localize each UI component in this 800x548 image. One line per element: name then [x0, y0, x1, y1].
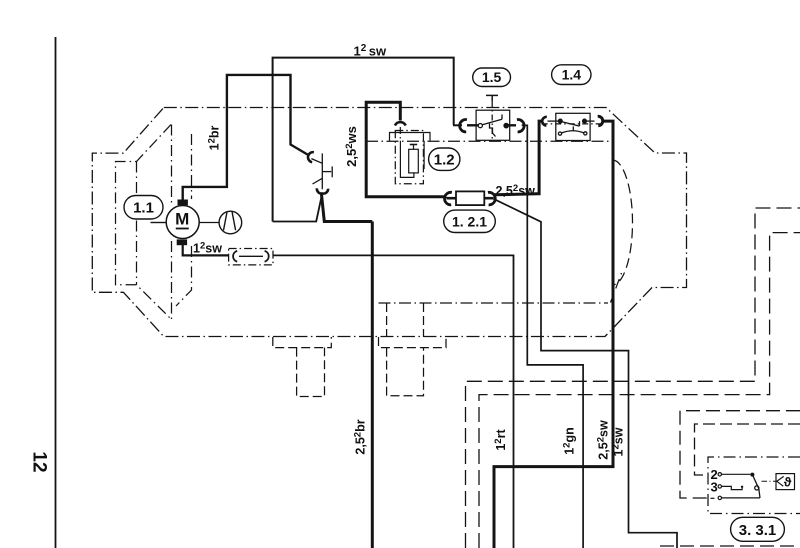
fuse 1.2.1 right hook	[488, 192, 495, 205]
wire fuse to switch 1.4 (2,5sw)	[494, 121, 543, 195]
thermostat 3.3.1 boundary (dash-dot)	[708, 457, 800, 514]
switch 1.5 input hook	[460, 120, 467, 132]
svg-text:2,52ws: 2,52ws	[344, 126, 359, 167]
svg-text:12gn: 12gn	[562, 427, 577, 455]
page number 12	[28, 451, 49, 472]
label 1.5	[473, 68, 511, 87]
wire 1gn from switch 1.5	[522, 125, 583, 548]
fan symbol	[199, 211, 242, 234]
svg-text:12: 12	[28, 451, 49, 472]
heater inner left outline (dash-dot)	[116, 125, 172, 320]
mounting foot 1 leg	[297, 348, 325, 397]
svg-text:1.5: 1.5	[482, 69, 502, 85]
label 2,5br (rotated)	[353, 419, 368, 454]
glow plug feed frame wire 2,5ws	[366, 102, 446, 197]
glow plug sheath	[400, 141, 424, 178]
svg-text:12rt: 12rt	[493, 429, 508, 451]
svg-text:ϑ: ϑ	[784, 475, 792, 490]
thermostat blade	[752, 475, 760, 498]
label 1.1	[124, 196, 163, 220]
wire 2,5sw from switch 1.4 to bottom	[494, 121, 613, 548]
switch 1.5 contacts and blade	[453, 115, 516, 137]
switch 1.4 input hook	[542, 117, 547, 126]
bulkhead bottom dashed line	[660, 545, 800, 547]
heater body outline (dash-dot)	[92, 108, 686, 337]
svg-text:1.1: 1.1	[133, 200, 154, 217]
svg-text:1.2: 1.2	[434, 152, 455, 169]
heater right blower arc (dashed)	[611, 160, 633, 303]
label 1.4	[552, 65, 591, 85]
control unit enclosure inner (dashed)	[695, 424, 800, 475]
glow plug connector hook	[395, 122, 406, 125]
motor left stub wire	[151, 222, 167, 224]
flame switch upper connector hook	[308, 152, 314, 162]
switch 1.4 output hook	[598, 116, 603, 126]
label 3.3.1	[731, 517, 785, 541]
wire 2,5br from flame switch down	[321, 193, 372, 548]
label 2,5ws (rotated)	[344, 126, 359, 167]
svg-text:1. 2.1: 1. 2.1	[452, 214, 487, 230]
thermostat terminal minus	[711, 496, 761, 499]
label 2,5sw at fuse	[496, 183, 536, 198]
label 1rt (rotated)	[493, 429, 508, 451]
wire 1sw top run	[273, 58, 454, 222]
control unit enclosure outer (dashed)	[680, 411, 800, 498]
page border line	[55, 37, 57, 548]
label 1br (rotated)	[207, 125, 222, 150]
mounting foot 2 leg	[387, 348, 424, 396]
label 1gn (rotated)	[562, 427, 577, 455]
mounting foot 1 tab	[273, 337, 332, 348]
glow plug element	[409, 145, 419, 173]
switch 1.5 output hook	[517, 120, 524, 132]
svg-text:3. 3.1: 3. 3.1	[739, 522, 777, 539]
mounting foot 2 tab	[379, 337, 447, 348]
thermostat terminal 2	[711, 467, 755, 482]
glow plug 1.2 boundary (dash-dot)	[395, 131, 423, 184]
mounting foot 2 risers	[387, 303, 424, 337]
glow plug 1.2 flange	[390, 133, 431, 141]
thermostat terminal 3	[711, 480, 744, 495]
heater inner horizontal line lower (dash-dot)	[379, 302, 609, 304]
switch 1.4 axis dash-dot	[542, 123, 601, 125]
connector hooks and through wire	[233, 251, 269, 262]
flame switch lower connector hook	[317, 188, 328, 193]
wire 1rt run to bottom	[273, 255, 514, 548]
vehicle bulkhead outer line (dashed)	[466, 208, 800, 548]
label 1sw motor	[193, 241, 222, 256]
switch 1.5 box	[476, 110, 510, 140]
label 1.2.1	[444, 210, 496, 232]
glow plug lead dash-dot	[399, 127, 401, 141]
label 1sw bottom (rotated)	[611, 427, 626, 456]
thermostat sensor link (dash-dot)	[762, 480, 777, 482]
heater inner horizontal line upper (dash-dot)	[366, 140, 609, 142]
heater inner vertical line at motor right	[176, 134, 192, 306]
connector pair at motor bottom	[229, 249, 273, 265]
motor M 1.1	[166, 200, 199, 246]
switch 1.4 box	[556, 113, 590, 140]
svg-text:2,52br: 2,52br	[353, 419, 368, 454]
fuse 1.2.1 left hook	[445, 192, 452, 205]
label 1.2	[429, 148, 460, 170]
wire fuse to panel (1sw branch)	[494, 199, 678, 548]
label 1sw top	[354, 43, 388, 59]
thermostat sensor box	[776, 474, 795, 490]
fuse 1.2.1 body	[447, 191, 494, 205]
vehicle bulkhead inner line (dashed)	[479, 233, 800, 548]
switch 1.5 actuator dash-dot line	[491, 101, 493, 140]
switch 1.4 contacts and blade	[548, 119, 595, 135]
svg-text:3: 3	[711, 480, 718, 495]
flame switch contact pin	[311, 153, 332, 189]
svg-text:12br: 12br	[207, 125, 222, 150]
heater inner vertical line at motor left	[171, 125, 173, 320]
wire 1br motor top	[183, 75, 309, 200]
wire 1sw motor bottom	[183, 244, 229, 255]
wire 1sw from flame switch to top feed	[273, 195, 322, 222]
svg-text:M: M	[175, 210, 189, 229]
svg-text:1.4: 1.4	[562, 67, 582, 83]
switch 1.5 thermal actuator T	[486, 95, 498, 101]
svg-text:12sw: 12sw	[193, 241, 222, 256]
svg-text:2,52sw: 2,52sw	[596, 420, 611, 460]
label 2,5sw bottom (rotated)	[596, 420, 611, 460]
svg-text:12sw: 12sw	[354, 43, 388, 59]
